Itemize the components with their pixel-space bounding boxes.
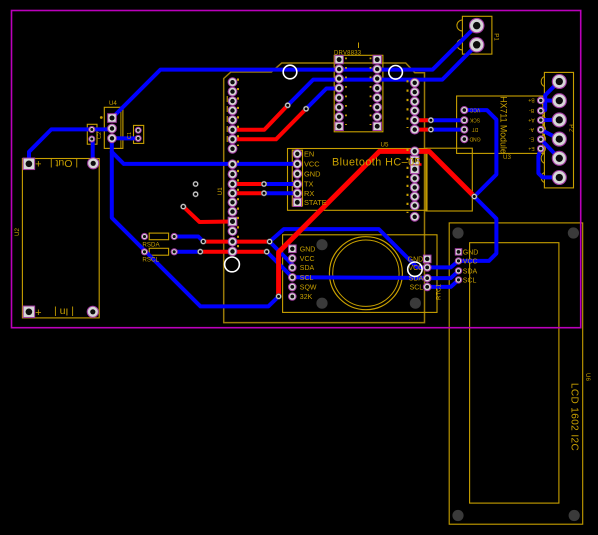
wire RSDA net row (red) xyxy=(203,240,269,244)
svg-text:GND: GND xyxy=(463,250,479,257)
DRC marker circle xyxy=(408,262,422,276)
C2 pin1 xyxy=(89,127,95,133)
board outline xyxy=(12,11,581,328)
wire RTC SDA to LCD SDA (blue) xyxy=(427,271,458,278)
wire via to U1 square pad (red) xyxy=(183,207,232,222)
svg-text:P2: P2 xyxy=(568,124,575,132)
via xyxy=(193,191,199,197)
U1 right header D pin6 xyxy=(410,192,419,201)
RTC1 mounting hole xyxy=(316,298,327,309)
U1 right header D pin3 (square) xyxy=(410,165,419,174)
svg-text:A-: A- xyxy=(529,126,534,132)
via xyxy=(267,239,273,245)
DRV8833 pin5 xyxy=(335,93,344,102)
svg-text:DT: DT xyxy=(472,126,479,132)
U3 pin label E- xyxy=(529,136,534,142)
U1 left header A pin1 xyxy=(228,78,237,87)
U5 pad RX xyxy=(293,189,302,198)
U1 left header B pin9 xyxy=(228,237,237,246)
wire U1 RX to via (red) xyxy=(233,191,265,195)
regulator U4 inner line xyxy=(120,107,122,148)
U3 pad A+ xyxy=(537,117,544,124)
U2 pad + (in) xyxy=(23,306,35,318)
svg-text:U5: U5 xyxy=(381,141,389,148)
U2 bottom silk text (rotated 180) xyxy=(54,305,74,317)
arduino board U1 outline xyxy=(224,63,425,323)
wire U4 pin1 - DRV8833 row2 - P1 pin1 (blue) xyxy=(112,26,477,118)
DRV8833 driver outline xyxy=(334,55,383,132)
svg-text:VCC: VCC xyxy=(463,259,478,266)
power module U2 outline xyxy=(22,159,99,318)
U3 pin label E+ xyxy=(528,145,534,151)
wire U1 pad to via (red) xyxy=(233,105,288,130)
LCD pad SDA xyxy=(455,268,461,274)
RTC1 pad 32K xyxy=(289,293,297,301)
RTC1 mounting hole xyxy=(316,239,327,250)
U4 pin1 xyxy=(108,114,117,123)
wire RTC SCL to LCD SCL (blue) xyxy=(427,280,458,287)
connector D1 outline xyxy=(426,148,472,211)
via xyxy=(303,106,309,112)
U3 pin label A+ xyxy=(528,116,534,122)
regulator U4 outline xyxy=(104,107,123,148)
U5 pad STATE (square) xyxy=(293,198,301,206)
RTC1 right pad VCC xyxy=(423,264,431,272)
U3 pad GND xyxy=(461,136,468,143)
DRV8833 pin1 (square) xyxy=(335,55,343,63)
wire RSDA to via (blue) xyxy=(174,237,203,242)
via xyxy=(261,190,267,196)
U2 pad out xyxy=(88,158,99,169)
U3 pin label B- xyxy=(529,107,534,113)
wire U3 VCC down to via (blue) xyxy=(464,110,496,196)
U1 right header C pin2 xyxy=(410,88,419,97)
svg-text:STATE: STATE xyxy=(304,198,327,207)
C1 pin1 xyxy=(135,127,141,133)
LCD 1602 module outline xyxy=(449,223,583,524)
via xyxy=(261,181,267,187)
U1 left header A pin8 xyxy=(228,144,237,153)
via xyxy=(428,117,434,123)
U1 right header C pin3 xyxy=(410,97,419,106)
Bluetooth HC-05 module U5 outline xyxy=(288,149,428,211)
wire via to U5 TX (blue) xyxy=(264,182,297,186)
P1 pin2 xyxy=(470,38,484,52)
U3 pad E- xyxy=(537,136,544,143)
DRV8833 pin14 xyxy=(373,74,382,83)
RTC1 pad VCC xyxy=(289,254,297,262)
P2 pin1 xyxy=(552,75,566,89)
wire U3 E- to P2 pin5 (blue) xyxy=(541,139,559,158)
RTC1 pad SCL xyxy=(289,274,297,282)
U3 pad A- xyxy=(537,126,544,133)
U1 left header B pin10 xyxy=(228,247,237,256)
via xyxy=(200,239,206,245)
U3 pin label A- xyxy=(529,126,534,132)
mounting hole M2 xyxy=(389,66,403,80)
RTC1 right pad GND (square) xyxy=(423,255,431,263)
wire via to U3 SCK (blue) xyxy=(431,118,464,122)
via xyxy=(285,102,291,108)
U1 left header pin-name marks xyxy=(237,79,239,147)
U1 left header B pin1 xyxy=(228,160,237,169)
svg-text:+: + xyxy=(35,159,41,171)
svg-text:E+: E+ xyxy=(528,145,534,151)
U3 pin scallops xyxy=(543,96,546,152)
via xyxy=(276,294,282,300)
P2 pin5 xyxy=(552,151,566,165)
svg-text:U1: U1 xyxy=(217,187,224,195)
wire U3 B+ to P2 pin2 (blue) xyxy=(541,98,559,102)
U3 pin label B+ xyxy=(528,97,534,103)
svg-text:A+: A+ xyxy=(528,116,534,122)
RSCL pad2 xyxy=(171,249,177,255)
RTC1 mounting hole xyxy=(410,298,421,309)
U1 left header A pin4 xyxy=(228,106,237,115)
P2 pin4 xyxy=(552,132,566,146)
wire U2 out to C2 pin2 (blue) xyxy=(90,139,95,162)
RTC module RTC1 outline xyxy=(283,235,437,313)
HX711 module U3 outline xyxy=(457,96,543,153)
svg-text:SCL: SCL xyxy=(410,285,424,292)
RSDA pad2 xyxy=(171,233,177,239)
capacitor C2 outline xyxy=(87,124,97,144)
RTC1 right pad SCL xyxy=(423,283,431,291)
wire via to DRV8833 pin4 (blue) xyxy=(306,89,339,109)
resistor RSDA body xyxy=(149,233,168,240)
U4 pin2 xyxy=(108,124,117,133)
svg-text:SDA: SDA xyxy=(300,265,315,272)
via xyxy=(193,181,199,187)
svg-text:32K: 32K xyxy=(300,294,313,301)
wire via to RTC SCL (blue) xyxy=(267,252,293,278)
LCD pad GND (square) xyxy=(455,249,461,255)
wire big diagonal net (red) xyxy=(279,151,475,296)
DRV8833 pin13 xyxy=(373,84,382,93)
wire U1 TX to via (red) xyxy=(233,182,265,186)
wire U2+ to C2 to U4 (blue) xyxy=(29,129,112,162)
svg-text:RSCL: RSCL xyxy=(142,256,159,263)
U2 pad + (out) xyxy=(23,158,35,170)
svg-text:GND: GND xyxy=(469,135,481,141)
svg-text:P1: P1 xyxy=(493,33,500,41)
U3 pad B- xyxy=(537,107,544,114)
U2 pad in xyxy=(87,306,98,317)
P1 pin scallops xyxy=(457,20,462,50)
RTC1 battery holder circle xyxy=(329,237,402,310)
U1 right header D pin8 xyxy=(410,212,419,221)
svg-text:SCK: SCK xyxy=(469,116,480,122)
U1 silk micro text xyxy=(226,96,228,146)
DRV8833 pin4 xyxy=(335,84,344,93)
U1 right header D pin5 xyxy=(410,183,419,192)
P1 pin1 xyxy=(470,18,484,32)
svg-text:| Out |: | Out | xyxy=(50,157,78,169)
U1 left header A pin7 xyxy=(228,135,237,144)
wire U3 E+ to P2 pin6 (blue) xyxy=(538,149,559,178)
wire RTC VCC to LCD VCC (blue) xyxy=(427,261,458,268)
svg-text:SCL: SCL xyxy=(300,275,314,282)
C2 pin2 xyxy=(89,136,95,142)
U1 right header D pin4 xyxy=(410,174,419,183)
svg-text:DRV8833: DRV8833 xyxy=(334,50,362,56)
LCD pad VCC xyxy=(455,258,461,264)
DRV8833 pin12 xyxy=(373,93,382,102)
U1 left header B pin8 xyxy=(228,227,237,236)
svg-text:VCC: VCC xyxy=(304,160,320,169)
via xyxy=(197,249,203,255)
svg-text:TX: TX xyxy=(304,180,314,189)
U3 pad B+ xyxy=(537,97,544,104)
U3 pin label VCC xyxy=(469,106,480,112)
svg-text:C2: C2 xyxy=(97,132,103,139)
wire via to U5 RX (blue) xyxy=(264,191,297,195)
U5 pad TX xyxy=(293,180,302,189)
U3 pad DT xyxy=(461,126,468,133)
wire via to RTC SDA (blue) xyxy=(270,242,293,268)
U1 right header C pin6 xyxy=(410,125,419,134)
via xyxy=(471,194,477,200)
RTC1 battery holder inner circle xyxy=(333,240,399,306)
LCD 1602 inner window xyxy=(470,243,559,503)
wire branch to U1 pad and U5 VCC (blue) xyxy=(112,152,297,164)
RTC1 pad SDA xyxy=(289,264,297,272)
svg-text:C1: C1 xyxy=(127,132,133,139)
DRV8833 pin16 (square) xyxy=(373,55,381,63)
U3 pad SCK xyxy=(461,117,468,124)
wire U1 pad to via (red) xyxy=(233,109,307,140)
U1 left header B pin3 xyxy=(228,180,237,189)
U1 left header A pin3 xyxy=(228,97,237,106)
U1 left header A pin2 xyxy=(228,87,237,96)
svg-text:RX: RX xyxy=(304,189,314,198)
U3 pin label SCK xyxy=(469,116,480,122)
DRV8833 pin8 (square) xyxy=(335,122,343,130)
U3 pin label GND xyxy=(469,135,481,141)
via xyxy=(180,204,186,210)
red stub xyxy=(415,163,422,166)
svg-text:U3: U3 xyxy=(503,154,511,161)
DRV8833 pin1 tick xyxy=(358,43,360,49)
svg-text:VCC: VCC xyxy=(469,106,480,112)
U3 pad VCC xyxy=(461,107,468,114)
svg-text:| In |: | In | xyxy=(54,305,74,317)
P2 pin3 xyxy=(552,113,566,127)
P2 pin2 xyxy=(552,94,566,108)
U1 right header C pin4 xyxy=(410,106,419,115)
U1 left header B pin6 xyxy=(228,207,237,216)
DRV8833 pin9 (square) xyxy=(373,122,381,130)
RSDA pad1 xyxy=(141,233,147,239)
LCD mounting hole xyxy=(452,227,463,238)
connector P2 outline xyxy=(544,72,573,187)
wire RSCL net row (red) xyxy=(200,250,266,254)
U1 right header D pin2 (square) xyxy=(410,156,419,165)
svg-text:U6: U6 xyxy=(584,373,591,381)
wire U3 A+ to P2 pin3 (blue) xyxy=(541,118,559,122)
wire U4 pin3 down to bottom via (blue) xyxy=(112,138,279,306)
svg-text:SDA: SDA xyxy=(463,268,478,275)
U4 pin1 dot xyxy=(100,116,103,119)
RTC1 right pad SDA xyxy=(423,274,431,282)
DRV8833 pin marks xyxy=(345,58,347,126)
U1 left header A pin5 xyxy=(228,116,237,125)
via xyxy=(428,127,434,133)
wire via over RTC to RTC right VCC (blue) xyxy=(270,229,428,267)
svg-text:LCD 1602 I2C: LCD 1602 I2C xyxy=(569,383,580,451)
LCD mounting hole xyxy=(568,227,579,238)
wire via to U3 DT (blue) xyxy=(431,128,464,132)
mounting hole M3 xyxy=(225,257,240,272)
RTC1 pad SQW xyxy=(289,283,297,291)
RTC1 pad GND (square) xyxy=(289,245,297,253)
svg-text:E-: E- xyxy=(529,136,534,142)
U5 pad GND xyxy=(293,170,302,179)
connector P1 outline xyxy=(462,16,492,54)
svg-text:HX711 Module: HX711 Module xyxy=(499,96,509,154)
U4 pin3 xyxy=(108,134,117,143)
U3 pad E+ xyxy=(537,145,544,152)
U1 left header B pin2 xyxy=(228,170,237,179)
DRV8833 pin2 xyxy=(335,65,344,74)
U1 right header pin-name marks xyxy=(407,80,409,128)
U5 pin-header box xyxy=(292,150,302,206)
U1 left header B pin5 xyxy=(228,198,237,207)
DRV8833 pin11 xyxy=(373,103,382,112)
svg-text:SQW: SQW xyxy=(300,285,317,292)
wire RSCL to via (blue) xyxy=(174,250,200,254)
capacitor C1 outline xyxy=(134,125,144,143)
wire via to LCD VCC (blue) xyxy=(459,197,497,261)
U5 pad VCC xyxy=(293,160,302,169)
wire U4 pin3 to C1 (blue) xyxy=(112,136,138,140)
svg-text:U4: U4 xyxy=(109,100,117,107)
LCD mounting hole xyxy=(452,510,463,521)
DRV8833 pin15 xyxy=(373,65,382,74)
U1 right header C pin1 xyxy=(410,78,419,87)
wire U1 right pad to via (red) xyxy=(415,128,431,132)
U1 right header C pin5 xyxy=(410,116,419,125)
wire via to DRV8833 row3 to P1 pin2 (blue) xyxy=(288,45,477,106)
svg-text:EN: EN xyxy=(304,150,314,159)
DRV8833 pin3 xyxy=(335,74,344,83)
svg-text:SCL: SCL xyxy=(463,278,477,285)
U3 pin label DT xyxy=(472,126,479,132)
U1 left header A pin6 xyxy=(228,125,237,134)
U1 right header D pin7 xyxy=(410,201,419,210)
resistor RSCL body xyxy=(149,248,168,255)
U5 pad EN xyxy=(293,150,302,159)
P2 pin6 xyxy=(552,171,566,185)
via xyxy=(264,249,270,255)
RSCL pad1 xyxy=(141,249,147,255)
P2 pin scallops xyxy=(541,77,544,183)
svg-text:GND: GND xyxy=(300,246,316,253)
mounting hole M1 xyxy=(283,65,297,79)
svg-text:B-: B- xyxy=(529,107,534,113)
LCD pad SCL xyxy=(455,277,461,283)
wire U1 right pad to via (red) xyxy=(415,118,431,122)
U2 top silk text (rotated 180) xyxy=(50,157,78,169)
LCD mounting hole xyxy=(569,510,580,521)
svg-text:VCC: VCC xyxy=(300,256,315,263)
U1 left header B pin7 (square) xyxy=(228,217,237,226)
U1 right header D pin1 xyxy=(410,147,419,156)
svg-text:U2: U2 xyxy=(14,227,21,235)
C1 pin2 xyxy=(135,135,141,141)
DRV8833 pin6 xyxy=(335,103,344,112)
svg-text:+: + xyxy=(35,307,41,319)
svg-text:RSDA: RSDA xyxy=(142,241,160,248)
wire P2 pin1 to U3 B- (blue) xyxy=(541,82,559,111)
svg-text:Bluetooth HC–05: Bluetooth HC–05 xyxy=(332,156,421,168)
wire U3 A- to P2 pin4 (blue) xyxy=(541,130,559,139)
DRV8833 pin7 xyxy=(335,112,344,121)
DRV8833 pin10 xyxy=(373,112,382,121)
svg-text:RTC1: RTC1 xyxy=(436,283,443,300)
U1 left header B pin4 xyxy=(228,189,237,198)
wire RTC SCL to RTC right SDA (blue) xyxy=(292,275,427,280)
svg-text:GND: GND xyxy=(304,170,320,179)
svg-text:B+: B+ xyxy=(528,97,534,103)
